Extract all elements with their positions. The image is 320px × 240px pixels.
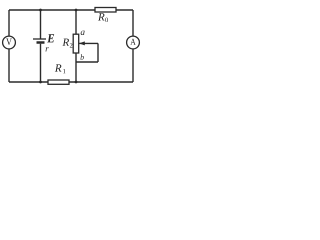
label R0 subscript [105, 18, 108, 22]
rheostat wiper arrowhead [79, 41, 85, 45]
node: junction dot at battery bottom [39, 81, 42, 84]
wire: left side (bottom-left corner up to voltmeter) [8, 49, 10, 83]
wire: left side (voltmeter up to top-left corner) [8, 10, 10, 37]
wire: bottom side, right segment (bottom-right corner to node b junction) [76, 81, 133, 83]
voltmeter V body (circle) [3, 36, 16, 49]
wire: wiper lead vertical drop [97, 43, 99, 62]
wire: rheostat branch lower (terminal b down to bottom node) [75, 53, 77, 82]
label R1 subscript 1 [63, 69, 65, 73]
resistor R0 body (box on top wire) [95, 8, 116, 13]
wire: rheostat branch upper (top node down to terminal a) [75, 10, 77, 34]
rheostat R2 body (vertical box) [73, 34, 79, 53]
label E (emf) [47, 34, 54, 42]
wire: wiper lead back to terminal b wire [76, 61, 98, 63]
wire: top side, left segment (top-left corner to battery node) [9, 9, 41, 11]
wire: battery branch upper (top node down to positive plate) [40, 10, 42, 39]
ammeter A body (circle) [127, 36, 140, 49]
label R0 (top resistor) [98, 13, 105, 20]
wire: top side, middle segment (battery node to rheostat node) [41, 9, 77, 11]
node: junction dot at battery top [39, 9, 42, 12]
wire: top side, right segment (rheostat node to resistor R0) [76, 9, 95, 11]
wire: wiper lead going right from arrow [79, 42, 98, 44]
label R2 (rheostat) [62, 39, 69, 46]
wire: top side, segment from R0 to top-right corner [116, 9, 133, 11]
label R1 [55, 64, 62, 71]
voltmeter V letter [6, 39, 12, 46]
label b (rheostat bottom terminal) [80, 54, 83, 59]
label R2 subscript [70, 43, 73, 47]
wire: right side (ammeter down to bottom-right corner) [132, 49, 134, 83]
wire: bottom side, middle segment with R1 (node b junction to battery node) [41, 81, 77, 83]
node: junction dot at rheostat top [75, 9, 78, 12]
ammeter A letter [130, 39, 135, 45]
node: junction dot at terminal b bottom [75, 81, 78, 84]
battery cell E r: long positive plate [33, 38, 46, 40]
battery cell E r: short thick negative plate [37, 41, 45, 44]
label r (internal resistance) [46, 47, 49, 51]
wire: battery branch lower (negative plate down to bottom node) [40, 44, 42, 82]
wire: bottom side, left segment (battery node to bottom-left corner) [9, 81, 41, 83]
resistor R1 body (box on bottom wire) [48, 80, 69, 84]
label a (rheostat top terminal) [81, 31, 85, 35]
wire: right side (top-right corner down to ammeter) [132, 10, 134, 37]
